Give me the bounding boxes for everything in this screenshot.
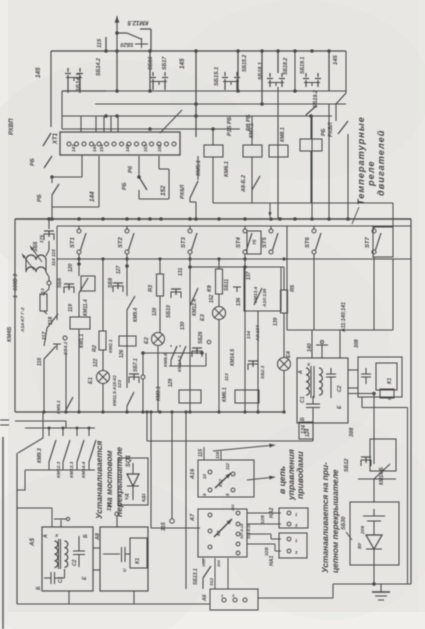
contact SB12/KM14.B (358, 478, 396, 480)
relay coil КМ6.1 (243, 145, 262, 157)
svg-text:Р1Б РБ: Р1Б РБ (227, 116, 233, 136)
svg-text:РХВП: РХВП (9, 118, 15, 135)
junction (188, 257, 191, 260)
contact SТ1 (78, 226, 80, 229)
relay coil KM6.1b (235, 390, 259, 403)
junction (236, 49, 240, 53)
junction (260, 49, 264, 53)
junction (125, 217, 129, 221)
junction (243, 410, 246, 413)
svg-text:Е1: Е1 (88, 377, 94, 384)
junction (170, 410, 173, 413)
svg-text:304: 304 (216, 560, 221, 567)
right edge v411 (410, 219, 412, 584)
junction (282, 257, 285, 260)
svg-text:К9: К9 (207, 285, 213, 292)
svg-text:Б: Б (36, 586, 42, 590)
svg-text:SБ19.2: SБ19.2 (313, 90, 319, 108)
svg-text:КМ11.4: КМ11.4 (83, 299, 89, 316)
junction (77, 217, 81, 221)
svg-text:301: 301 (230, 504, 235, 511)
junction (101, 257, 104, 260)
wire v393 top (392, 203, 394, 227)
terminal (82, 142, 86, 146)
terminal (127, 142, 131, 146)
box A16 (198, 460, 254, 497)
svg-text:312: 312 (209, 578, 215, 586)
wire A5-A8 links (93, 547, 100, 549)
shield sym (321, 345, 323, 358)
contact КМ13.3 (76, 428, 78, 436)
contact SB26 (192, 347, 202, 349)
wire v62 (61, 91, 63, 129)
node 113 (47, 281, 51, 285)
svg-text:КМ9.3: КМ9.3 (37, 448, 43, 463)
junction (269, 217, 273, 221)
svg-text:КМ9.6: КМ9.6 (163, 353, 169, 367)
contact SТ2 (126, 226, 128, 229)
terminal (172, 142, 176, 146)
wire into A5 (17, 507, 52, 509)
wire bus y116 (62, 115, 332, 117)
box KM14.B (370, 439, 396, 471)
svg-text:SБ10: SБ10 (166, 305, 172, 318)
terminal (120, 142, 124, 146)
relay coil KM9 (300, 139, 322, 151)
junction (148, 89, 152, 93)
wire y330 to box (311, 330, 313, 358)
junction (327, 217, 331, 221)
svg-text:SБ15.2: SБ15.2 (242, 55, 248, 72)
wire v374 top (373, 394, 375, 465)
contact KM2 bottom (127, 392, 134, 406)
wire right edge v346 (345, 51, 347, 93)
junction (346, 217, 350, 221)
svg-text:12В: 12В (260, 515, 266, 524)
resistor K9 (216, 269, 223, 294)
junction (276, 49, 280, 53)
wire v329 (328, 51, 330, 91)
A7 switch arrow (214, 519, 232, 537)
junction (217, 217, 221, 221)
wire ST7 down (373, 257, 375, 330)
bottom right rail (333, 583, 411, 585)
capacitor C2r (330, 368, 332, 374)
terminal (67, 142, 71, 146)
junction (115, 89, 119, 93)
main bus y226 (57, 225, 411, 227)
contact RB loop (138, 156, 140, 177)
svg-text:приводами: приводами (295, 451, 305, 499)
capacitor C1r (312, 396, 314, 404)
wire v312 (311, 116, 313, 219)
svg-text:112: 112 (225, 462, 230, 470)
svg-text:143: 143 (71, 144, 76, 152)
wire ST2 down (126, 254, 128, 296)
contact SТ5 (270, 226, 272, 229)
arrow out 1 (213, 445, 275, 451)
wire v117 (116, 51, 118, 91)
svg-text:С2: С2 (72, 559, 78, 566)
wire K1 links (348, 369, 358, 371)
contact SB20 (117, 32, 127, 34)
svg-text:SБ14.1: SБ14.1 (76, 73, 82, 92)
junction (243, 257, 246, 260)
relay box KM9.4 (119, 336, 136, 346)
wires A7 to A6 box (214, 558, 216, 589)
wire v278b (277, 87, 279, 219)
svg-text:126: 126 (119, 349, 125, 358)
svg-text:152: 152 (157, 144, 162, 152)
svg-text:151: 151 (143, 144, 148, 152)
contact KM12.4 (190, 288, 198, 306)
wire y353 (143, 352, 202, 354)
terminal (135, 142, 139, 146)
terminal (150, 142, 154, 146)
wire v151 (150, 412, 152, 528)
junction (256, 410, 259, 413)
wire E1 top (102, 259, 104, 331)
wire A5 down (68, 591, 70, 604)
wire v287b (286, 226, 288, 330)
box A8K1 (100, 527, 148, 591)
junction (42, 410, 45, 413)
arrow out 2 (247, 477, 275, 480)
contact SТ3 (189, 226, 191, 229)
A5 winding primary (55, 541, 58, 548)
wire v150 (149, 51, 151, 91)
svg-text:А: А (43, 534, 49, 539)
svg-text:А8-Б.2: А8-Б.2 (241, 175, 247, 193)
pushbutton SB16/SB17 (152, 72, 154, 76)
svg-text:115: 115 (97, 38, 103, 48)
junction (327, 49, 331, 53)
wire 144 (98, 156, 100, 207)
svg-text:SТ2: SТ2 (118, 236, 124, 248)
svg-text:SБ12: SБ12 (344, 459, 350, 472)
core (310, 366, 312, 398)
svg-text:КМ6.1: КМ6.1 (222, 387, 228, 402)
wire K9 top (218, 259, 220, 269)
contact RH6L (197, 156, 199, 180)
shield sym A5 (60, 520, 62, 527)
contact SB9 (113, 282, 123, 284)
svg-text:127: 127 (116, 265, 122, 274)
svg-text:SБ15.1: SБ15.1 (214, 67, 220, 86)
svg-text:КМ8.1: КМ8.1 (280, 127, 286, 142)
contact SB13.1 (202, 558, 204, 564)
svg-text:SБ5: SБ5 (33, 241, 39, 252)
svg-text:145: 145 (35, 67, 42, 78)
junction (184, 410, 187, 413)
wire top bus (51, 50, 346, 52)
svg-text:Устанавливается: Устанавливается (94, 441, 104, 519)
svg-text:КМ12.3: КМ12.3 (56, 461, 62, 478)
thyristor gate bar (363, 515, 385, 517)
junction (77, 410, 80, 413)
junction (125, 257, 128, 260)
svg-text:SБ18.1: SБ18.1 (258, 62, 264, 80)
wire v329b (328, 104, 330, 219)
wire v186 (185, 412, 187, 589)
svg-text:318-9-18: 318-9-18 (247, 523, 251, 539)
svg-text:КМ3.1: КМ3.1 (156, 386, 162, 401)
box A5 (42, 527, 93, 591)
svg-text:КМ5.1: КМ5.1 (196, 160, 202, 176)
junction (293, 89, 297, 93)
svg-text:120: 120 (68, 263, 74, 272)
wire A6 out right (258, 597, 333, 599)
wire bank feed (15, 420, 66, 422)
svg-text:КМ14.5: КМ14.5 (230, 349, 236, 366)
junction (104, 114, 108, 118)
svg-text:123: 123 (117, 380, 123, 388)
svg-text:SБ11: SБ11 (224, 279, 230, 291)
svg-text:32В: 32В (264, 547, 270, 556)
resistor 118 (48, 285, 50, 289)
diagonal wire to XT1 (160, 110, 182, 133)
junction (309, 114, 313, 118)
svg-text:Е3: Е3 (200, 313, 206, 321)
wire A8 down (133, 591, 135, 604)
svg-text:Рб: Рб (127, 165, 134, 173)
svg-text:130: 130 (180, 321, 186, 330)
svg-text:К2: К2 (216, 530, 221, 536)
svg-text:SБ30: SБ30 (341, 517, 347, 530)
junction (310, 49, 314, 53)
svg-text:U: U (387, 396, 393, 400)
wires A7 to HA (247, 512, 281, 514)
svg-text:314: 314 (107, 502, 113, 511)
contact RB RHVL (345, 51, 347, 93)
svg-text:Б: Б (83, 534, 89, 538)
svg-text:136: 136 (236, 297, 242, 306)
wire v258 (257, 311, 259, 412)
svg-text:152: 152 (209, 294, 215, 303)
wire v313 to A11 (312, 423, 314, 441)
wire under SB14 (62, 90, 106, 92)
wire coil drops (212, 129, 214, 145)
A16 leader lines (203, 447, 205, 460)
resistor R5 (281, 290, 288, 313)
relay coil КМ5.1 (204, 145, 223, 157)
terminal (97, 142, 101, 146)
junction (282, 410, 285, 413)
svg-text:122: 122 (93, 358, 99, 367)
U box (380, 389, 394, 398)
svg-text:1 ~600В 3: 1 ~600В 3 (13, 274, 19, 298)
svg-text:SТ4: SТ4 (236, 236, 242, 248)
wire ST1 down (78, 254, 80, 259)
junction (148, 49, 152, 53)
svg-text:ВУ: ВУ (357, 542, 363, 549)
svg-text:114 115: 114 115 (51, 249, 57, 266)
wire y393 (348, 393, 374, 395)
contact KM9.4 (127, 296, 135, 310)
wire y207 (52, 206, 99, 208)
svg-text:SТ7: SТ7 (365, 236, 371, 248)
junction (47, 217, 51, 221)
svg-text:131: 131 (178, 267, 184, 276)
box VD1 (118, 458, 148, 505)
junction (115, 114, 119, 118)
lamp E1 (97, 371, 110, 384)
contact SТ4 (244, 226, 246, 229)
junction (194, 114, 198, 118)
scan artifact line (2, 437, 4, 629)
terminal (90, 142, 94, 146)
svg-text:SТ5: SТ5 (262, 236, 268, 248)
svg-text:реле: реле (366, 160, 376, 187)
svg-text:РБ: РБ (122, 182, 128, 190)
contact RB 2 (81, 155, 83, 177)
contact SB4.2 (63, 336, 67, 340)
svg-text:РХ6Л: РХ6Л (180, 185, 186, 199)
wire A5 bottom (64, 569, 66, 578)
box HA1 (279, 533, 307, 558)
junction (217, 257, 220, 260)
leader SB30 (346, 532, 352, 540)
svg-text:SТ1: SТ1 (70, 237, 76, 248)
junction (211, 127, 215, 131)
pushbutton SB19.1 (305, 73, 307, 77)
wire v262 (261, 51, 263, 104)
svg-text:145: 145 (333, 55, 339, 65)
svg-text:Устанавливается на при-: Устанавливается на при- (320, 462, 330, 573)
junction (158, 257, 161, 260)
relay K1 (376, 363, 397, 390)
svg-text:Температурные: Температурные (356, 116, 366, 205)
bottom rail (17, 603, 210, 605)
terminal 314 (115, 512, 119, 516)
svg-text:С2: С2 (337, 385, 343, 392)
wire bus y129 (62, 128, 240, 130)
svg-text:R5: R5 (290, 284, 296, 292)
capacitor A8 (103, 553, 120, 555)
junction (101, 217, 105, 221)
wires into XT1 (80, 116, 82, 132)
contact 116 (44, 328, 47, 346)
svg-text:КМ13.3: КМ13.3 (69, 461, 75, 478)
svg-text:115: 115 (198, 449, 204, 457)
wire v278 (277, 51, 279, 73)
svg-text:КМ2.1: КМ2.1 (108, 339, 114, 353)
relay coil КМ8.1 (269, 145, 288, 157)
svg-text:SБ6: SБ6 (57, 278, 63, 288)
box around ST7 (373, 227, 393, 257)
junction (260, 102, 264, 106)
wire VU down (373, 565, 375, 584)
main bus y219 (15, 218, 411, 220)
svg-text:119: 119 (68, 304, 74, 312)
junction (278, 217, 282, 221)
junction (194, 217, 198, 221)
junction (125, 410, 128, 413)
box near ST5 (247, 231, 261, 254)
box K1 right (358, 357, 402, 397)
svg-text:перекрышателе: перекрышателе (114, 447, 124, 517)
svg-text:SБ20: SБ20 (120, 41, 133, 47)
wire ST3 down (189, 254, 191, 412)
junction (148, 217, 152, 221)
relay coil KM1.1 (70, 317, 90, 329)
terminal 315 (171, 412, 173, 519)
svg-text:116: 116 (37, 358, 43, 366)
A16 terminals (208, 470, 212, 474)
ground (380, 584, 382, 592)
relay coil KM3.1 (179, 390, 201, 403)
wire left edge drop (50, 51, 52, 127)
wire v196 (195, 51, 197, 137)
svg-text:SБ26: SБ26 (198, 331, 204, 344)
svg-text:цепном перекрышателе: цепном перекрышателе (330, 469, 340, 573)
svg-text:КМ4Б: КМ4Б (7, 327, 13, 342)
svg-text:SБ2.3: SБ2.3 (260, 365, 266, 379)
A5 capacitor C1 (44, 577, 51, 579)
wire ST6 down (313, 254, 315, 330)
svg-text:139: 139 (273, 317, 279, 326)
svg-text:SБ17: SБ17 (162, 56, 168, 70)
svg-text:SТ3: SТ3 (181, 236, 187, 248)
svg-text:КМ1.1: КМ1.1 (79, 334, 85, 348)
box A6 connector (210, 589, 258, 610)
wire ST4 down (244, 254, 246, 412)
contact KM14.2 / KM9.6 (170, 345, 172, 347)
lamp E2 (152, 333, 165, 346)
svg-text:308: 308 (349, 427, 355, 437)
svg-text:113: 113 (224, 373, 230, 381)
svg-text:VД: VД (124, 493, 129, 500)
junction (217, 410, 220, 413)
contact A8-B.2 (252, 176, 260, 190)
contact SТ7 (373, 226, 375, 229)
svg-text:R2: R2 (92, 345, 98, 352)
wire y267 (190, 266, 284, 268)
svg-text:А16: А16 (190, 468, 196, 480)
junction (137, 217, 141, 221)
lamp E4 (278, 358, 291, 371)
winding 600V (26, 255, 46, 260)
junction (115, 49, 119, 53)
svg-text:145: 145 (179, 58, 186, 69)
wire R5 branch (283, 267, 285, 290)
junction (64, 410, 67, 413)
junction (188, 410, 191, 413)
svg-text:116: 116 (215, 451, 220, 459)
contact SB19.2 (306, 106, 316, 115)
A5 capacitor C2 (78, 536, 80, 551)
svg-text:SБ16: SБ16 (148, 56, 154, 70)
wire y203 (213, 202, 393, 204)
contact SB10 (171, 288, 181, 290)
svg-text:К12: К12 (218, 479, 223, 487)
wire bank left (18, 412, 43, 453)
svg-text:РБ: РБ (321, 128, 327, 136)
svg-text:209: 209 (360, 526, 366, 535)
arrow onto bus (269, 203, 271, 217)
junction (194, 49, 198, 53)
wire bus y104 (95, 103, 346, 105)
contact SB5 (48, 219, 50, 229)
terminal (112, 142, 116, 146)
pushbutton SB15.1 (224, 72, 226, 76)
svg-text:КМ6.1: КМ6.1 (224, 161, 230, 177)
svg-text:128: 128 (152, 307, 158, 316)
junction (236, 89, 240, 93)
box around KM13.4 (244, 267, 281, 311)
junction (243, 217, 247, 221)
thyristor triangle (373, 521, 375, 535)
